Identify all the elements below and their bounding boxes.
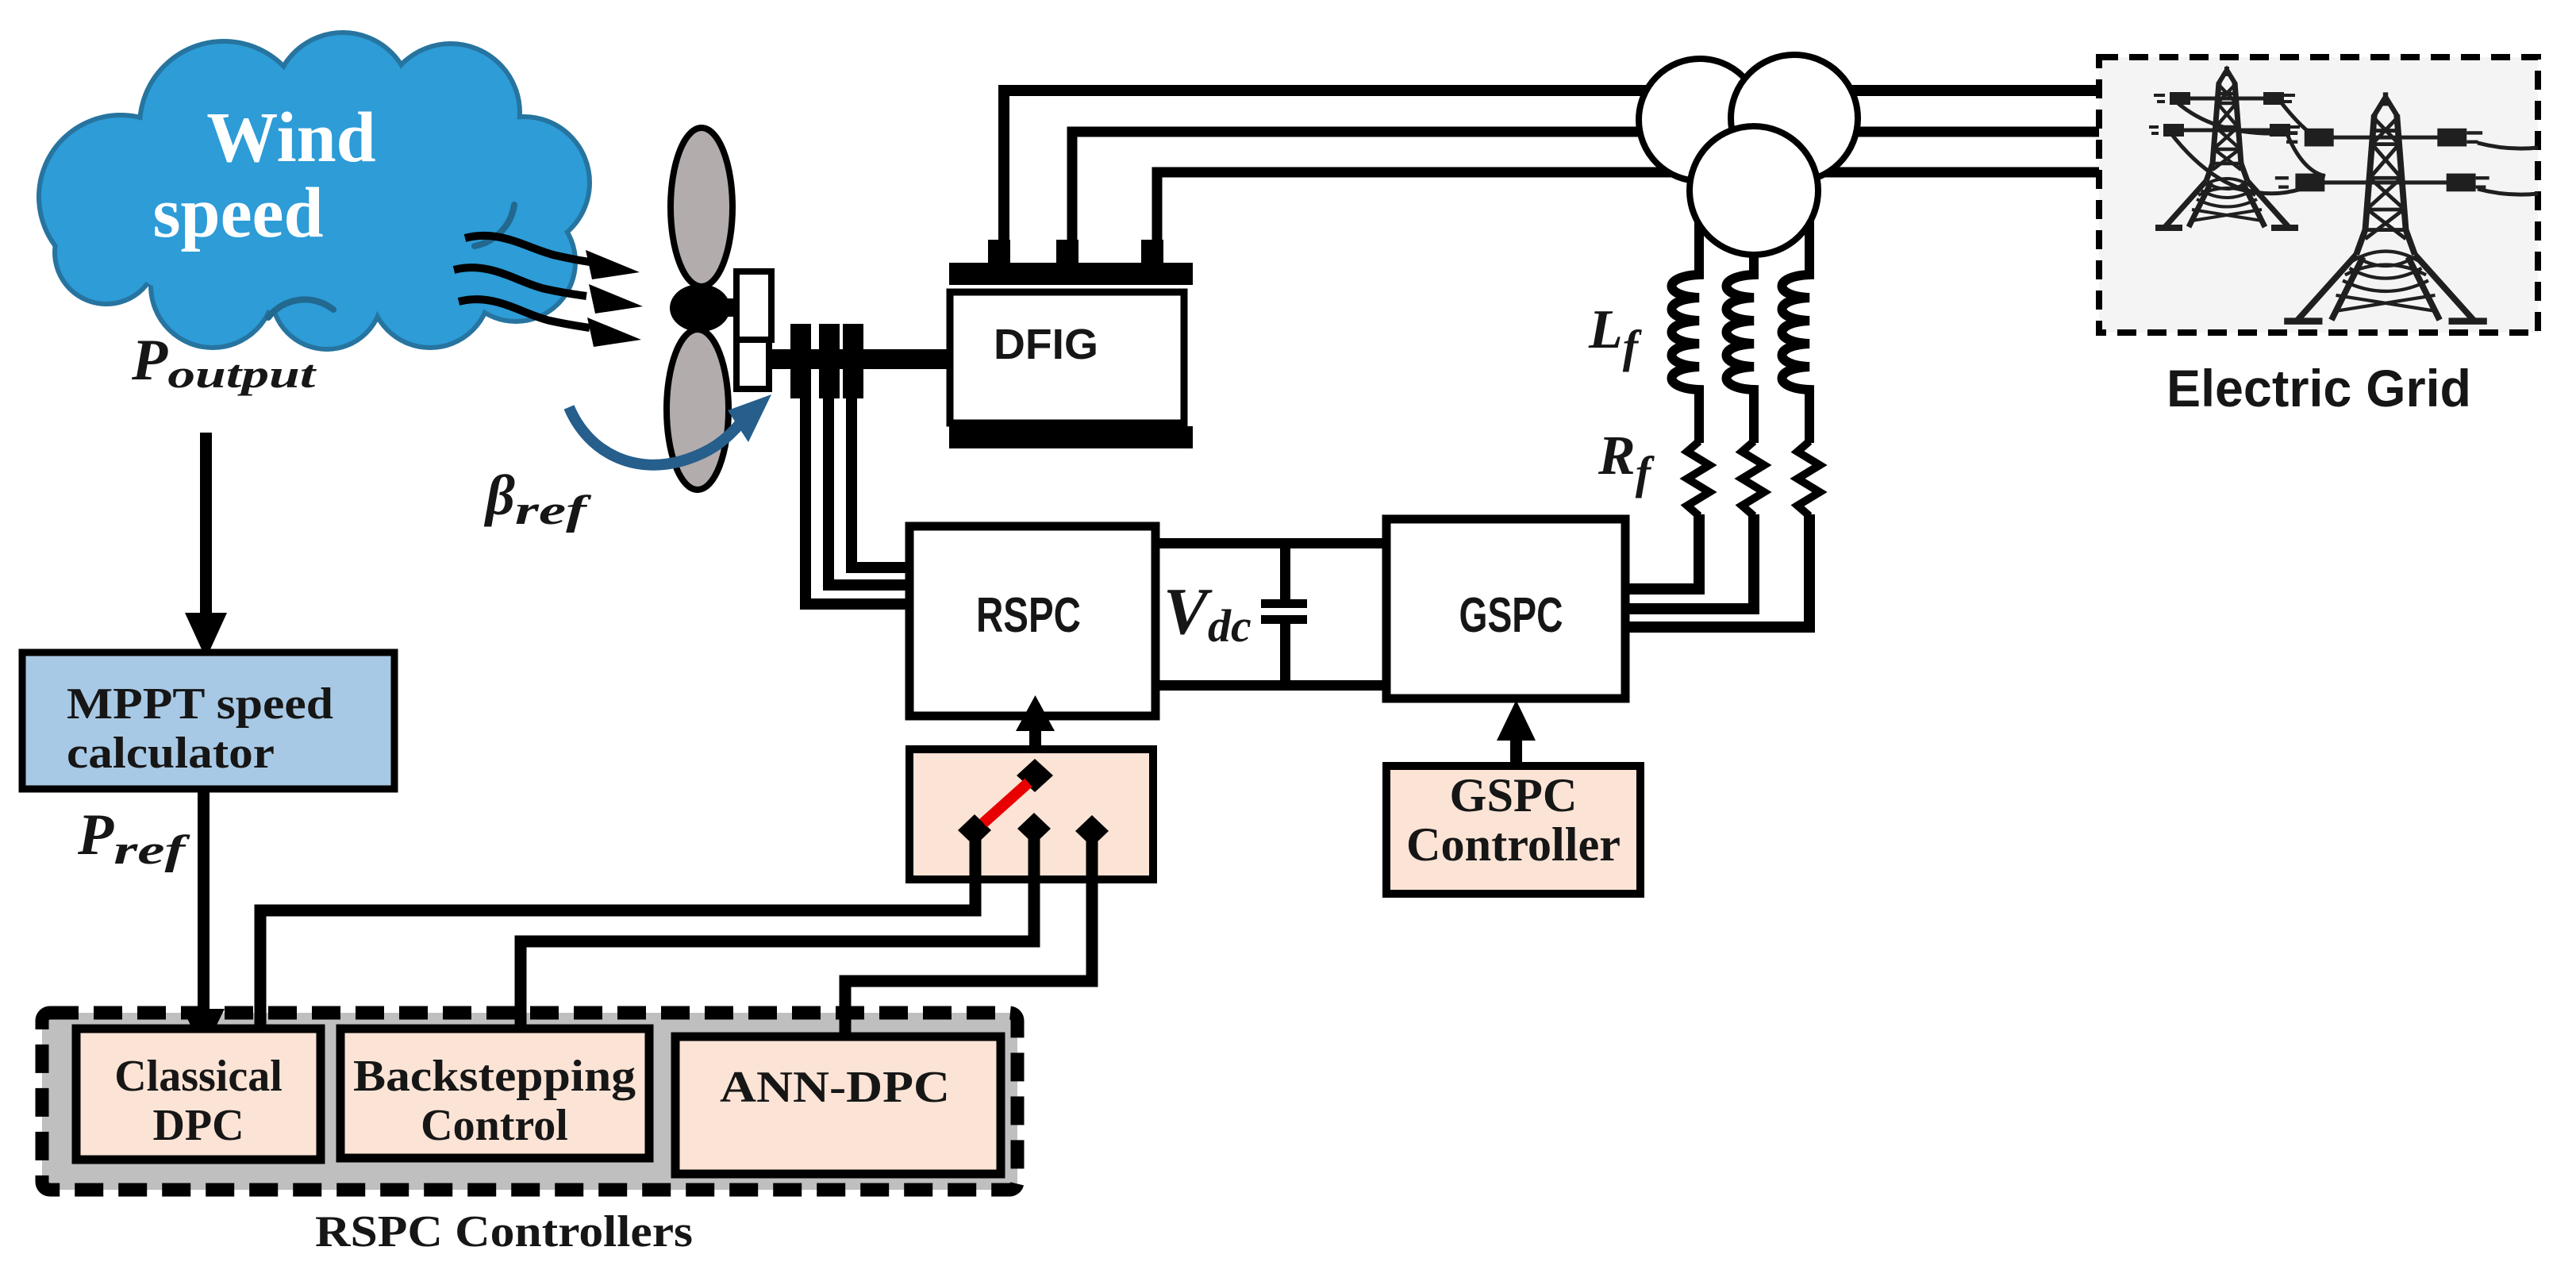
DFIG top bar <box>949 263 1193 285</box>
svg-text:Wind: Wind <box>206 98 376 177</box>
RSPC converter box <box>909 526 1155 716</box>
svg-text:GSPC: GSPC <box>1459 588 1563 643</box>
svg-text:speed: speed <box>152 174 323 252</box>
GSPC output wire a <box>1625 514 1699 589</box>
svg-text:Electric Grid: Electric Grid <box>2167 359 2471 418</box>
switch pin wire 2 <box>521 832 1034 1030</box>
stator wire phase C <box>1157 172 2099 263</box>
svg-text:RSPC: RSPC <box>976 588 1081 643</box>
filter inductor L_f (phase a) <box>1672 221 1700 443</box>
stator wire phase B <box>1072 132 2099 263</box>
DC link bottom rail <box>1155 680 1386 691</box>
switch box <box>909 749 1153 879</box>
switch pin wire 3 <box>845 833 1092 1040</box>
filter inductor L_f (phase c) <box>1782 217 1810 443</box>
wire GSPC controller to GSPC (arrow) <box>1510 737 1522 768</box>
switch pin wire 1 <box>260 833 975 1030</box>
svg-text:ANN-DPC: ANN-DPC <box>720 1063 950 1112</box>
filter resistor R_f (phase a) <box>1687 441 1709 516</box>
svg-text:Controller: Controller <box>1406 818 1621 871</box>
turbine hub <box>670 284 730 332</box>
wire MPPT to RSPC-controllers (arrow) <box>198 788 210 1012</box>
DFIG generator box <box>950 292 1184 423</box>
svg-text:GSPC: GSPC <box>1450 769 1578 822</box>
arrowhead P_ref into group <box>183 1009 225 1052</box>
rotor wire b <box>829 397 909 585</box>
transmission tower (left) <box>2149 67 2300 228</box>
wind flow arrows <box>454 236 590 328</box>
DC link top rail <box>1155 538 1386 548</box>
GSPC output wire b <box>1625 514 1754 609</box>
svg-text:MPPT speed: MPPT speed <box>67 679 333 729</box>
switch common diamond <box>1017 759 1053 792</box>
ANN-DPC box <box>675 1037 1001 1174</box>
wind speed cloud <box>41 35 587 347</box>
classical DPC box <box>76 1029 321 1160</box>
wire switch to RSPC (arrow) <box>1029 726 1041 780</box>
svg-text:Backstepping: Backstepping <box>353 1052 636 1101</box>
turbine blade (top) <box>671 128 732 287</box>
DC bus capacitor <box>1280 546 1290 601</box>
DFIG terminal stubs <box>988 240 1010 264</box>
svg-text:DFIG: DFIG <box>994 321 1098 368</box>
switch pin wire stubs over group box <box>260 1008 845 1043</box>
filter inductor L_f (phase b) <box>1727 249 1755 443</box>
RSPC controllers dashed group box <box>42 1013 1017 1190</box>
gearbox <box>736 271 771 340</box>
GSPC converter box <box>1386 519 1625 698</box>
svg-text:calculator: calculator <box>67 729 275 778</box>
svg-text:RSPC Controllers: RSPC Controllers <box>315 1207 693 1256</box>
electric grid dashed box <box>2099 57 2538 333</box>
beta_ref pitch arrow <box>569 407 741 465</box>
switch pin diamonds <box>958 814 991 846</box>
turbine blade (bottom) <box>667 329 729 490</box>
svg-text:Classical: Classical <box>114 1052 283 1101</box>
svg-text:DPC: DPC <box>152 1101 244 1150</box>
GSPC output wire c <box>1625 514 1809 627</box>
filter resistor R_f (phase c) <box>1797 441 1820 516</box>
GSPC controller box <box>1386 766 1640 894</box>
turbine shaft <box>762 349 952 369</box>
filter resistor R_f (phase b) <box>1742 441 1764 516</box>
rotor wire a <box>805 397 909 604</box>
wire cloud to MPPT (arrow) <box>200 433 212 619</box>
svg-text:Control: Control <box>421 1101 568 1150</box>
slip ring bars <box>790 324 811 398</box>
DFIG bottom bar <box>949 426 1193 448</box>
transmission tower (right) <box>2275 92 2489 321</box>
MPPT speed calculator box <box>22 652 394 789</box>
stator wire phase A (DFIG to grid) <box>1004 90 2099 263</box>
grid conductor spans <box>2170 100 2538 194</box>
switch red selector <box>983 783 1028 823</box>
transformer (three winding circles) <box>1639 55 1858 255</box>
rotor wire c <box>852 397 909 568</box>
backstepping control box <box>340 1029 649 1158</box>
